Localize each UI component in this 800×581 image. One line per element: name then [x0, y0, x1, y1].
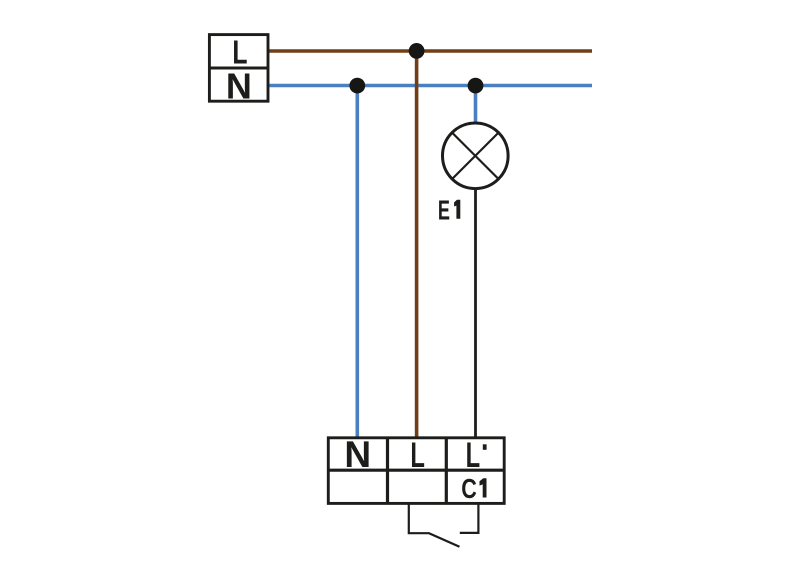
- svg-text:C: C: [461, 474, 477, 505]
- svg-text:L: L: [466, 436, 481, 475]
- svg-text:N: N: [226, 66, 252, 107]
- svg-text:N: N: [344, 434, 371, 475]
- svg-text:E: E: [438, 195, 450, 226]
- svg-text:L: L: [410, 436, 425, 475]
